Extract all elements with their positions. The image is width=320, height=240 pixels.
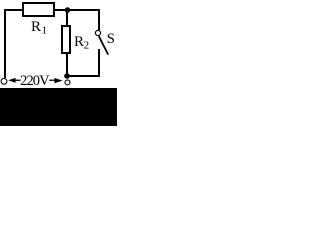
switch S contact circle: [95, 30, 100, 35]
switch S blade: [99, 36, 108, 54]
wire top horizontal from left corner to right corner: [4, 9, 100, 11]
black bar bottom: [0, 88, 117, 126]
wire R2 branch lower vertical: [66, 53, 68, 77]
wire top right vertical to switch: [98, 9, 100, 30]
node junction dot top: [65, 7, 71, 13]
resistor R1: [23, 3, 54, 16]
background: [0, 0, 117, 126]
arrow left of 220V label: [8, 78, 20, 83]
node junction dot bottom: [64, 73, 70, 79]
resistor R2: [62, 26, 70, 53]
wire R2 branch upper vertical: [66, 10, 68, 27]
terminal circle left: [1, 78, 7, 84]
svg-text:1: 1: [42, 25, 48, 37]
svg-text:S: S: [107, 31, 115, 47]
wire switch lower vertical: [98, 49, 100, 76]
svg-text:R: R: [31, 19, 41, 35]
arrow right of 220V label: [49, 78, 62, 83]
wire bottom horizontal: [67, 75, 100, 77]
terminal circle right: [65, 80, 70, 85]
svg-text:2: 2: [84, 40, 90, 52]
svg-text:R: R: [74, 34, 84, 50]
svg-text:220V: 220V: [20, 73, 50, 89]
wire left vertical down to source terminal: [4, 9, 6, 78]
